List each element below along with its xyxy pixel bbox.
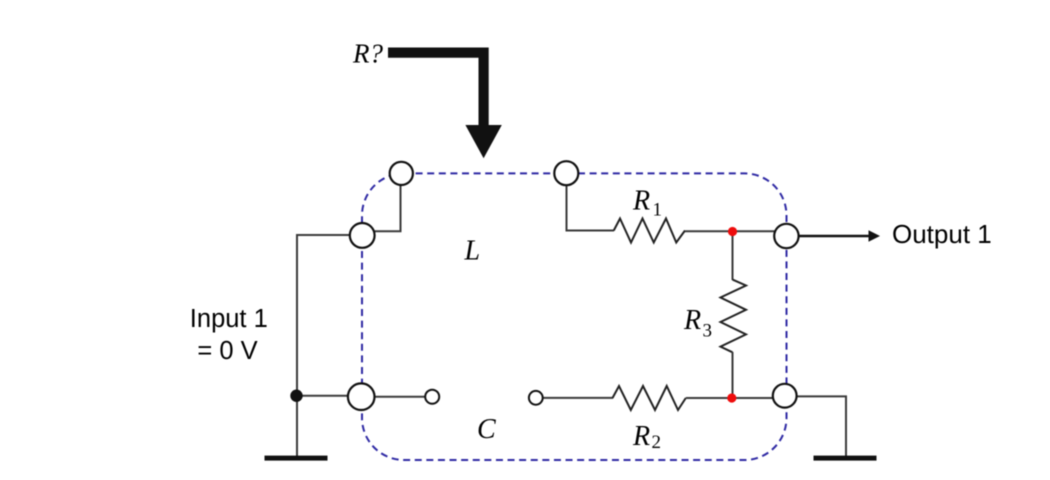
terminal C4 (right upper / output) bbox=[774, 224, 798, 248]
terminal C5 (left lower) bbox=[348, 383, 375, 410]
svg-text:Output 1: Output 1 bbox=[892, 219, 992, 249]
annotation arrow R? bbox=[388, 48, 502, 159]
terminal C3 (top middle) bbox=[554, 161, 578, 185]
wire R3 to red node bottom bbox=[732, 352, 734, 398]
wire C7 to R2 bbox=[543, 397, 614, 399]
svg-text:1: 1 bbox=[653, 200, 663, 221]
terminal C2 (left upper) bbox=[350, 223, 375, 248]
junction input node bbox=[290, 390, 302, 402]
node red junction top (R1/R3) bbox=[728, 227, 737, 236]
svg-text:2: 2 bbox=[652, 432, 662, 453]
dashed network boundary bbox=[362, 173, 787, 460]
terminal C8 (right lower) bbox=[773, 384, 797, 408]
svg-text:R?: R? bbox=[352, 39, 383, 69]
svg-text:L: L bbox=[464, 236, 481, 267]
wire red node to R3 bbox=[732, 232, 734, 281]
svg-text:C: C bbox=[477, 414, 496, 445]
terminal C7 (small, right of gap) bbox=[529, 391, 543, 405]
wire C3 drop to R1 bbox=[567, 185, 615, 231]
wire R1 to output terminal bbox=[685, 230, 776, 232]
svg-text:3: 3 bbox=[703, 321, 713, 342]
terminal C1 (top-left) bbox=[390, 162, 413, 185]
svg-text:Input 1: Input 1 bbox=[190, 305, 268, 333]
wire R2 to C8 bbox=[686, 397, 774, 399]
svg-text:R: R bbox=[683, 305, 701, 336]
wire C5 to C6 bbox=[375, 396, 427, 398]
wire junction to C5 bbox=[297, 395, 349, 397]
resistor R1 bbox=[614, 219, 685, 243]
ground (input) bbox=[265, 456, 328, 461]
svg-text:R: R bbox=[632, 186, 650, 217]
wire input horizontal bbox=[297, 234, 350, 236]
svg-text:= 0 V: = 0 V bbox=[197, 337, 257, 365]
wire input vertical bbox=[296, 234, 298, 458]
node red junction bottom (R2/R3) bbox=[727, 393, 736, 402]
svg-text:R: R bbox=[632, 421, 650, 452]
terminal C6 (small, left of gap) bbox=[425, 390, 439, 404]
resistor R3 bbox=[721, 280, 747, 353]
ground (output) bbox=[814, 456, 877, 461]
resistor R2 bbox=[613, 386, 686, 410]
wire C8 to ground bbox=[797, 396, 847, 456]
wire C2 to C1 riser bbox=[375, 185, 401, 232]
output arrow bbox=[799, 235, 869, 237]
